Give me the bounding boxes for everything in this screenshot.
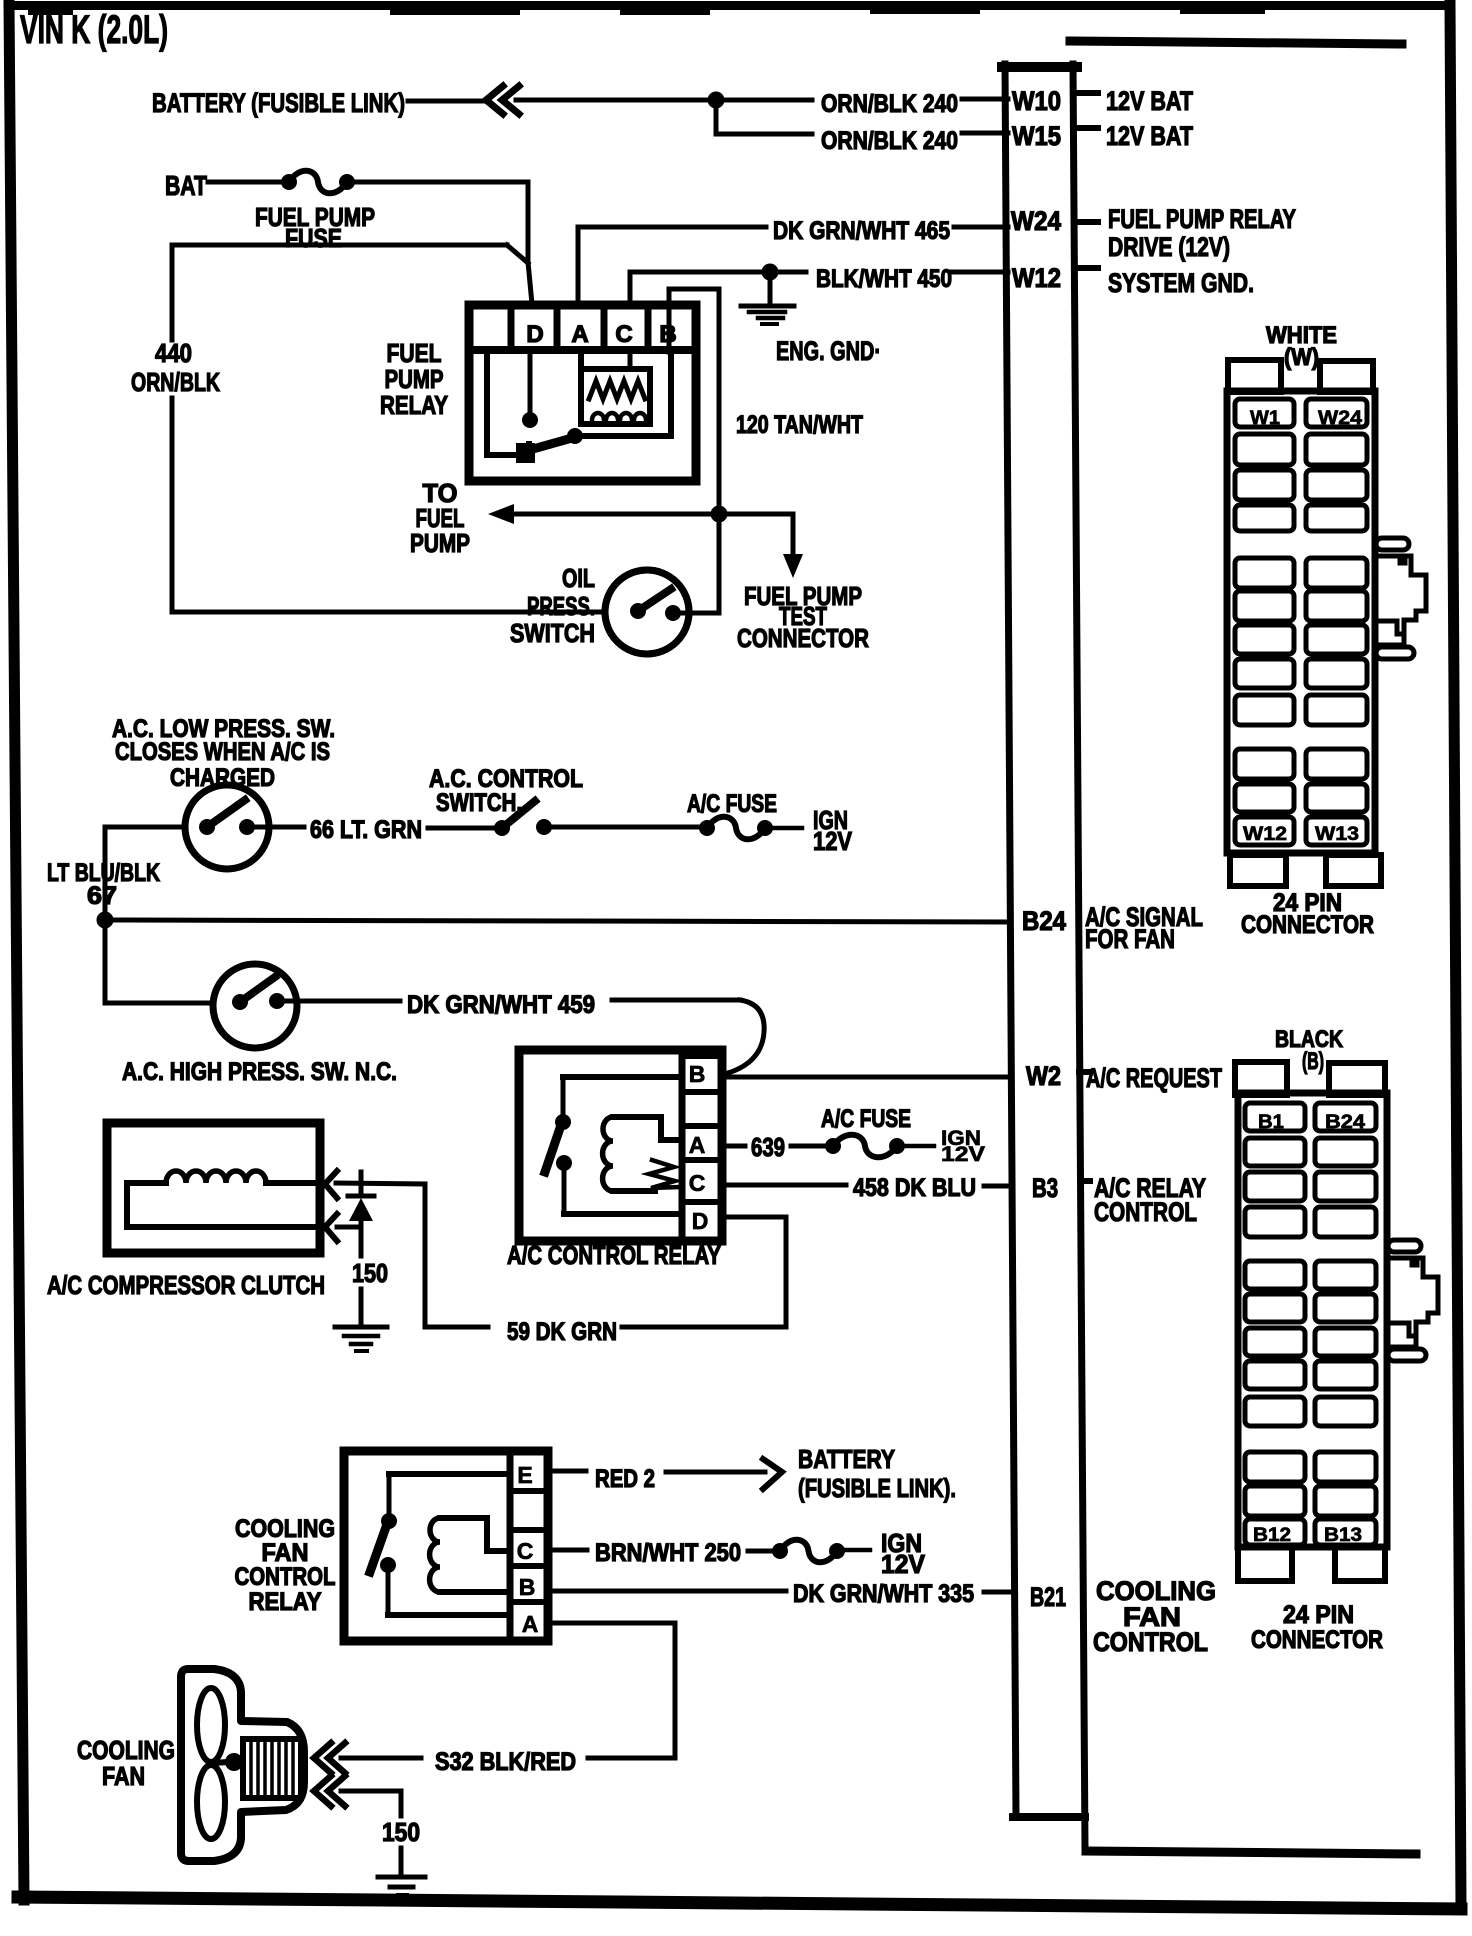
svg-text:59 DK GRN: 59 DK GRN	[507, 1318, 617, 1346]
svg-text:B: B	[519, 1574, 536, 1600]
svg-text:W13: W13	[1315, 824, 1359, 845]
svg-text:D: D	[526, 321, 543, 348]
wire ORN/BLK 240 (to W10)	[408, 90, 1008, 118]
svg-text:B21: B21	[1030, 1582, 1066, 1612]
svg-text:W1: W1	[1250, 408, 1280, 429]
clutch diode	[348, 1172, 374, 1227]
pin W15	[1012, 121, 1193, 151]
svg-text:B3: B3	[1032, 1173, 1058, 1203]
pin W24	[1011, 204, 1296, 262]
svg-text:OIL: OIL	[562, 563, 595, 593]
white connector pin cavities	[1235, 399, 1367, 845]
A/C control relay K2	[507, 1050, 722, 1270]
fuel pump test connector arrow	[719, 514, 869, 653]
wire fan ground 150	[341, 1791, 420, 1874]
cooling fan motor assembly	[181, 1669, 304, 1861]
svg-text:CONNECTOR: CONNECTOR	[737, 623, 869, 653]
fuel pump relay coil	[581, 352, 650, 424]
pin label B12	[1253, 1525, 1291, 1546]
A/C fuse (ignition feed)	[687, 790, 853, 856]
black connector pin cavities	[1245, 1103, 1376, 1545]
cooling fan relay switch	[370, 1474, 510, 1615]
wire relay A to cooling fan (S32 BLK/RED)	[341, 1623, 675, 1776]
page border top	[4, 1, 1454, 15]
svg-text:PRESS.: PRESS.	[527, 591, 595, 621]
A/C low pressure switch	[112, 715, 335, 869]
svg-text:12V: 12V	[813, 826, 853, 856]
svg-text:A.C. HIGH PRESS. SW. N.C.: A.C. HIGH PRESS. SW. N.C.	[122, 1058, 397, 1086]
svg-text:E: E	[517, 1462, 532, 1488]
svg-text:CHARGED: CHARGED	[170, 764, 275, 792]
wire ORN/BLK 240 (to W15)	[716, 127, 1008, 155]
svg-text:150: 150	[382, 1817, 420, 1847]
svg-text:CONTROL: CONTROL	[1094, 1197, 1197, 1227]
wire BAT to fuse	[208, 180, 282, 185]
pin label W13	[1315, 824, 1359, 845]
wire high press switch left	[105, 1001, 213, 1006]
wire DK GRN/WHT 459	[285, 991, 764, 1073]
svg-text:ENG. GND·: ENG. GND·	[776, 336, 881, 366]
24 pin connector BLACK (B)	[1235, 1026, 1387, 1581]
page border left	[9, 2, 24, 1900]
wire 120 TAN/WHT	[669, 289, 863, 613]
wire BRN/WHT 250 with fuse to IGN	[548, 1528, 926, 1579]
24 pin connector WHITE (W)	[1227, 322, 1381, 886]
svg-text:CLOSES WHEN A/C IS: CLOSES WHEN A/C IS	[115, 738, 330, 766]
svg-text:A/C FUSE: A/C FUSE	[821, 1105, 911, 1133]
svg-text:150: 150	[352, 1258, 388, 1288]
node junction 67/B24	[97, 912, 114, 929]
title VIN K (2.0L)	[20, 8, 168, 52]
wire DK GRN/WHT 335 to B21	[548, 1576, 1216, 1657]
label COOLING FAN	[77, 1735, 175, 1791]
svg-text:639: 639	[751, 1132, 785, 1162]
svg-text:A/C CONTROL RELAY: A/C CONTROL RELAY	[507, 1240, 721, 1270]
fuel pump fuse	[255, 171, 375, 253]
svg-text:24 PIN: 24 PIN	[1283, 1601, 1354, 1629]
svg-text:PUMP: PUMP	[410, 528, 470, 558]
pin label B24	[1325, 1112, 1365, 1133]
wire switch to A/C fuse	[550, 825, 701, 830]
cooling fan motor windings	[243, 1739, 301, 1798]
page border right	[1450, 4, 1461, 1905]
pin W12	[1012, 263, 1254, 298]
wire oil switch to 440	[172, 610, 605, 615]
svg-text:SWITCH: SWITCH	[510, 618, 595, 648]
svg-text:DRIVE (12V): DRIVE (12V)	[1108, 232, 1230, 262]
svg-text:A: A	[522, 1611, 539, 1637]
wire A/C signal to B24	[105, 920, 1010, 922]
svg-text:A/C REQUEST: A/C REQUEST	[1086, 1063, 1222, 1093]
svg-text:CONNECTOR: CONNECTOR	[1241, 911, 1374, 939]
svg-text:ORN/BLK 240: ORN/BLK 240	[821, 127, 958, 155]
svg-text:S32 BLK/RED: S32 BLK/RED	[435, 1748, 576, 1776]
svg-text:B24: B24	[1325, 1112, 1365, 1133]
wire TO FUEL PUMP	[410, 478, 716, 558]
svg-text:C: C	[615, 321, 632, 348]
svg-text:(W): (W)	[1284, 344, 1319, 371]
battery feed chevron	[486, 86, 519, 114]
svg-text:12V BAT: 12V BAT	[1106, 86, 1193, 116]
wire 59 DK GRN	[336, 1183, 786, 1346]
cooling fan blades	[197, 1688, 243, 1839]
white connector key profile	[1376, 538, 1426, 659]
node battery junction	[708, 92, 725, 135]
ground (clutch 150)	[335, 1327, 387, 1351]
label BAT	[165, 170, 207, 201]
svg-text:B13: B13	[1324, 1525, 1362, 1546]
svg-text:C: C	[517, 1538, 534, 1564]
fuel pump relay switch	[487, 352, 671, 463]
svg-text:12V: 12V	[941, 1143, 985, 1166]
svg-text:W24: W24	[1011, 206, 1061, 236]
pin label W1	[1250, 408, 1280, 429]
wire 440 ORN/BLK	[131, 245, 528, 612]
svg-text:SYSTEM GND.: SYSTEM GND.	[1108, 268, 1254, 298]
svg-text:BRN/WHT 250: BRN/WHT 250	[595, 1539, 741, 1567]
svg-text:FUSE: FUSE	[285, 223, 342, 253]
svg-text:A: A	[571, 321, 588, 348]
svg-text:SWITCH.: SWITCH.	[436, 789, 522, 817]
svg-text:CONTROL: CONTROL	[235, 1563, 336, 1591]
pin W10	[1012, 86, 1193, 116]
svg-text:W24: W24	[1318, 408, 1362, 429]
svg-text:440: 440	[155, 338, 192, 368]
engine ground symbol	[741, 272, 881, 366]
wire RED 2 to battery	[548, 1444, 956, 1503]
cooling fan control relay K3	[235, 1451, 549, 1641]
fan terminal arrows	[314, 1743, 345, 1806]
svg-text:W15: W15	[1012, 121, 1061, 151]
svg-text:A/C FUSE: A/C FUSE	[687, 790, 777, 818]
black connector key profile	[1388, 1240, 1438, 1361]
svg-text:BLK/WHT 450: BLK/WHT 450	[816, 265, 952, 293]
svg-text:A: A	[689, 1132, 706, 1158]
cooling fan relay coil	[430, 1518, 510, 1592]
label 24 PIN CONNECTOR (black)	[1251, 1601, 1383, 1654]
svg-text:BATTERY (FUSIBLE LINK): BATTERY (FUSIBLE LINK)	[152, 88, 405, 118]
svg-text:C: C	[689, 1170, 706, 1196]
A/C control relay coil	[603, 1117, 682, 1191]
node engine ground junction	[762, 264, 779, 281]
oil pressure switch	[510, 563, 689, 654]
wire LT BLU/BLK 67	[47, 827, 185, 1003]
svg-text:12V BAT: 12V BAT	[1106, 121, 1193, 151]
label BATTERY (FUSIBLE LINK)	[152, 88, 405, 118]
A/C control switch	[429, 765, 583, 836]
fuel pump relay K1	[380, 305, 696, 481]
svg-text:DK GRN/WHT 459: DK GRN/WHT 459	[407, 991, 595, 1019]
svg-text:(FUSIBLE LINK).: (FUSIBLE LINK).	[798, 1473, 956, 1503]
ECM box outline	[1070, 41, 1416, 1854]
svg-text:W10: W10	[1012, 86, 1061, 116]
wire BLK/WHT 450 (to W12)	[630, 265, 1008, 304]
pin label W12	[1243, 824, 1287, 845]
svg-text:66 LT. GRN: 66 LT. GRN	[310, 816, 422, 844]
wire 458 DK BLU to B3	[724, 1173, 1206, 1227]
pin label B1	[1258, 1112, 1284, 1133]
svg-text:CONTROL: CONTROL	[1093, 1627, 1208, 1657]
ECM connector strip outline	[1002, 64, 1085, 1849]
svg-text:CONNECTOR: CONNECTOR	[1251, 1626, 1383, 1654]
svg-text:DK GRN/WHT 335: DK GRN/WHT 335	[793, 1580, 974, 1608]
svg-text:VIN K (2.0L): VIN K (2.0L)	[20, 8, 168, 52]
wire clutch to ground 150	[337, 1227, 388, 1324]
svg-text:BATTERY: BATTERY	[798, 1444, 895, 1474]
pin B24	[1022, 902, 1203, 954]
svg-text:RELAY: RELAY	[249, 1588, 322, 1616]
svg-text:B: B	[689, 1061, 706, 1087]
svg-text:W12: W12	[1012, 263, 1061, 293]
page border bottom	[18, 1897, 1461, 1909]
A/C high pressure switch	[122, 964, 397, 1086]
wire 639 with A/C fuse to IGN	[724, 1105, 985, 1166]
clutch terminal arrows	[325, 1171, 337, 1241]
svg-text:ORN/BLK 240: ORN/BLK 240	[821, 90, 958, 118]
svg-text:FOR FAN: FOR FAN	[1085, 924, 1175, 954]
svg-text:B12: B12	[1253, 1525, 1291, 1546]
wire 66 LT. GRN	[255, 816, 496, 844]
svg-text:W2: W2	[1026, 1061, 1061, 1091]
A/C control relay switch	[545, 1077, 682, 1214]
svg-text:A/C COMPRESSOR CLUTCH: A/C COMPRESSOR CLUTCH	[47, 1270, 325, 1300]
wire fuse to relay terminal D	[352, 182, 532, 304]
svg-text:67: 67	[87, 882, 117, 910]
pin label W24	[1318, 408, 1362, 429]
svg-text:W12: W12	[1243, 824, 1287, 845]
svg-text:B1: B1	[1258, 1112, 1284, 1133]
svg-text:FAN: FAN	[102, 1761, 145, 1791]
svg-text:FUEL PUMP RELAY: FUEL PUMP RELAY	[1108, 204, 1296, 234]
svg-text:458 DK BLU: 458 DK BLU	[853, 1174, 976, 1202]
svg-text:12V: 12V	[881, 1549, 926, 1579]
svg-text:RED 2: RED 2	[595, 1465, 655, 1493]
A/C compressor clutch	[47, 1123, 325, 1300]
ground (fan 150)	[378, 1877, 425, 1895]
svg-text:120 TAN/WHT: 120 TAN/WHT	[736, 411, 863, 439]
pin W2	[728, 1061, 1222, 1093]
svg-text:(B): (B)	[1302, 1048, 1324, 1075]
svg-text:BAT: BAT	[165, 170, 207, 201]
svg-text:DK GRN/WHT 465: DK GRN/WHT 465	[773, 217, 950, 245]
svg-text:B24: B24	[1022, 906, 1066, 936]
svg-text:ORN/BLK: ORN/BLK	[131, 367, 220, 397]
label 24 PIN CONNECTOR (white)	[1241, 889, 1374, 939]
svg-text:RELAY: RELAY	[380, 390, 448, 420]
svg-text:D: D	[692, 1208, 709, 1234]
wire DK GRN/WHT 465 (to W24)	[578, 217, 1008, 304]
pin label B13	[1324, 1525, 1362, 1546]
